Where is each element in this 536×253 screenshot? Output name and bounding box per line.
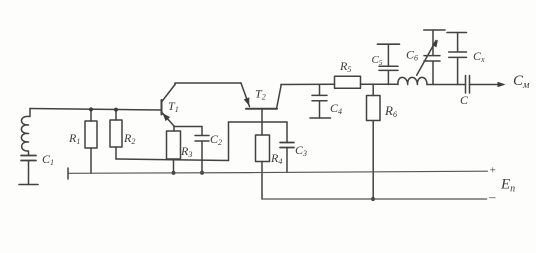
wire Q1 collector to Q2 emitter: [175, 83, 241, 85]
wire to C3 top: [229, 121, 288, 123]
svg-text:C: C: [460, 93, 469, 107]
resistor R5: [335, 76, 361, 88]
capacitor C2: [195, 127, 209, 173]
resistor R6: [367, 84, 381, 199]
capacitor C series: [466, 76, 470, 94]
svg-text:C6: C6: [406, 48, 418, 63]
svg-text:R1: R1: [68, 131, 80, 146]
transistor Q2 emitter: [241, 83, 250, 107]
wire riser up: [228, 122, 230, 161]
capacitor C5: [379, 44, 398, 84]
svg-text:C5: C5: [372, 54, 383, 67]
svg-text:T2: T2: [255, 87, 266, 102]
resistor R4: [256, 135, 270, 199]
transistor Q2 collector: [277, 85, 282, 109]
transistor Q1 base bar: [161, 100, 163, 115]
svg-text:R3: R3: [180, 144, 192, 159]
svg-text:C2: C2: [210, 132, 222, 147]
svg-text:+: +: [489, 165, 496, 177]
transistor Q2 base bar: [246, 108, 277, 110]
capacitor C6 arrow: [417, 41, 436, 76]
svg-text:Cм: Cм: [513, 73, 530, 91]
junction C2 rail: [200, 171, 204, 175]
capacitor C3: [280, 143, 294, 148]
junction R3 rail: [172, 171, 176, 175]
resistor R2: [110, 110, 122, 159]
wire output with arrow: [470, 84, 504, 86]
junction R2 top: [114, 108, 118, 112]
resistor R3: [167, 131, 181, 173]
capacitor C4: [312, 85, 327, 119]
svg-text:C4: C4: [330, 101, 342, 116]
wire positive rail: [68, 171, 487, 173]
svg-text:C1: C1: [42, 152, 54, 167]
svg-text:Eп: Eп: [500, 177, 515, 195]
wire Q2 base down to R4: [261, 109, 263, 135]
junction R1 top: [89, 107, 93, 111]
rail left tick: [67, 168, 69, 179]
capacitor C6 variable: [424, 30, 440, 85]
wire R5 to coil: [361, 83, 399, 85]
transistor Q2 emitter arrow: [244, 97, 250, 106]
wire C3 bottom to rail: [286, 148, 288, 173]
ground chassis bar Cx: [447, 32, 467, 34]
wire left drop to coil: [29, 109, 31, 117]
svg-text:C3: C3: [295, 143, 307, 158]
svg-text:R5: R5: [339, 59, 351, 74]
wire Q1 emitter node: [174, 126, 202, 131]
ground chassis bar C4: [310, 117, 331, 119]
inductor L2 coil: [398, 77, 427, 84]
wire C1 to chassis: [28, 161, 30, 185]
wire coil to output: [427, 84, 466, 86]
wire down to C3: [286, 122, 288, 143]
transistor Q1 collector: [162, 85, 176, 103]
junction R6 negative rail: [371, 197, 375, 201]
svg-text:R2: R2: [123, 131, 135, 146]
svg-text:R4: R4: [270, 151, 282, 166]
capacitor C1: [21, 156, 36, 161]
svg-text:–: –: [488, 189, 496, 204]
wire Q2 collector line: [281, 83, 335, 85]
transistor Q1 emitter: [162, 112, 175, 126]
output arrowhead: [498, 82, 506, 88]
inductor L1 coil: [21, 116, 29, 151]
ground chassis bar left: [19, 184, 38, 186]
capacitor Cx: [449, 33, 467, 85]
svg-text:Cx: Cx: [473, 49, 485, 64]
svg-text:T1: T1: [168, 99, 179, 114]
resistor R1: [85, 109, 97, 173]
ground chassis bar C6: [424, 29, 445, 31]
wire base bias rail: [30, 109, 161, 111]
svg-text:R6: R6: [384, 103, 397, 119]
wire negative rail: [262, 198, 487, 200]
transistor Q1 emitter arrow: [163, 113, 171, 121]
wire R2 bottom to riser: [116, 159, 229, 161]
ground chassis bar C5: [377, 43, 399, 45]
